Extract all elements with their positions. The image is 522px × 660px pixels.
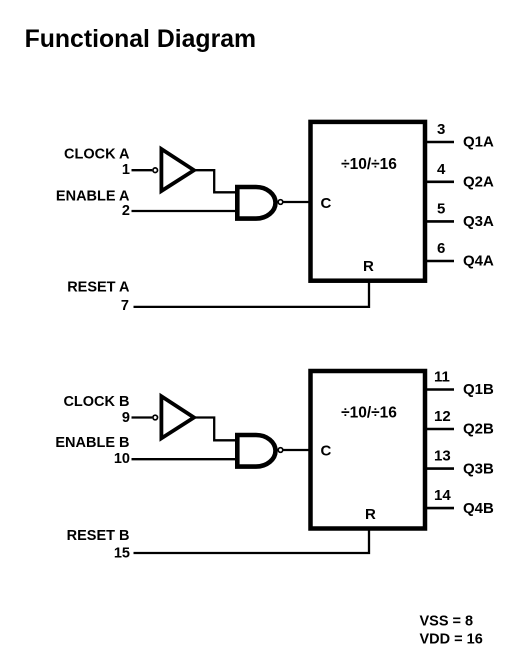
svg-text:Functional Diagram: Functional Diagram <box>25 26 256 53</box>
svg-text:Q3B: Q3B <box>463 460 494 477</box>
counter block B box <box>311 371 426 529</box>
NAND gate G1A body <box>237 187 275 219</box>
wire output Q3A <box>427 220 454 223</box>
svg-text:2: 2 <box>122 203 130 219</box>
svg-text:Q1B: Q1B <box>463 381 494 398</box>
svg-text:15: 15 <box>114 546 130 562</box>
wire pin 7 reset to counter A R input <box>134 282 370 307</box>
wire output Q4B <box>427 507 454 510</box>
svg-text:4: 4 <box>437 161 446 178</box>
wire pin 10 to NAND bottom input <box>132 458 237 460</box>
svg-text:CLOCK B: CLOCK B <box>63 394 129 410</box>
svg-text:C: C <box>321 443 332 460</box>
svg-text:VDD = 16: VDD = 16 <box>420 632 483 648</box>
svg-text:Q4A: Q4A <box>463 253 494 270</box>
svg-text:12: 12 <box>434 408 451 425</box>
wire pin 15 reset to counter B R input <box>134 529 370 553</box>
svg-text:ENABLE A: ENABLE A <box>56 188 130 204</box>
svg-text:6: 6 <box>437 240 445 257</box>
inverter U1B triangle <box>161 396 194 438</box>
wire output Q2B <box>427 428 454 431</box>
svg-text:7: 7 <box>121 298 129 314</box>
inverter U1A triangle <box>161 149 194 191</box>
NAND gate G1B body <box>237 435 275 467</box>
svg-text:11: 11 <box>434 369 450 386</box>
svg-text:Q2B: Q2B <box>463 421 494 438</box>
svg-text:Q4B: Q4B <box>463 500 494 517</box>
svg-text:5: 5 <box>437 200 445 217</box>
svg-text:VSS = 8: VSS = 8 <box>420 614 474 630</box>
svg-text:÷10/÷16: ÷10/÷16 <box>341 404 397 421</box>
wire inverter U1A output to NAND top input <box>194 170 237 192</box>
counter block A box <box>311 122 426 281</box>
svg-text:÷10/÷16: ÷10/÷16 <box>341 156 397 173</box>
wire NAND output to counter C input <box>284 201 311 203</box>
wire pin 2 to NAND bottom input <box>132 210 237 212</box>
svg-text:Q1A: Q1A <box>463 134 494 151</box>
svg-text:3: 3 <box>437 121 445 138</box>
svg-text:9: 9 <box>122 410 130 426</box>
wire output Q1B <box>427 388 454 391</box>
wire output Q1A <box>427 141 454 144</box>
svg-text:1: 1 <box>122 162 130 178</box>
svg-text:13: 13 <box>434 448 451 465</box>
inverter U1B input bubble <box>153 415 158 420</box>
svg-text:10: 10 <box>114 451 130 467</box>
wire pin 1 to inverter bubble <box>132 169 153 171</box>
wire output Q3B <box>427 467 454 470</box>
wire NAND output to counter C input <box>284 449 311 451</box>
wire pin 9 to inverter bubble <box>132 416 153 418</box>
wire output Q2A <box>427 181 454 184</box>
inverter U1A input bubble <box>153 168 158 173</box>
svg-text:C: C <box>321 195 332 212</box>
svg-text:CLOCK A: CLOCK A <box>64 147 130 163</box>
wire inverter U1B output to NAND top input <box>194 418 237 441</box>
svg-text:ENABLE B: ENABLE B <box>55 435 129 451</box>
wire output Q4A <box>427 260 454 263</box>
svg-text:R: R <box>363 258 374 275</box>
NAND gate G1B output bubble <box>278 448 283 453</box>
svg-text:RESET A: RESET A <box>67 280 130 296</box>
svg-text:Q2A: Q2A <box>463 174 494 191</box>
svg-text:RESET B: RESET B <box>67 528 130 544</box>
svg-text:14: 14 <box>434 487 451 504</box>
NAND gate G1A output bubble <box>278 200 283 205</box>
svg-text:Q3A: Q3A <box>463 213 494 230</box>
svg-text:R: R <box>365 506 376 523</box>
